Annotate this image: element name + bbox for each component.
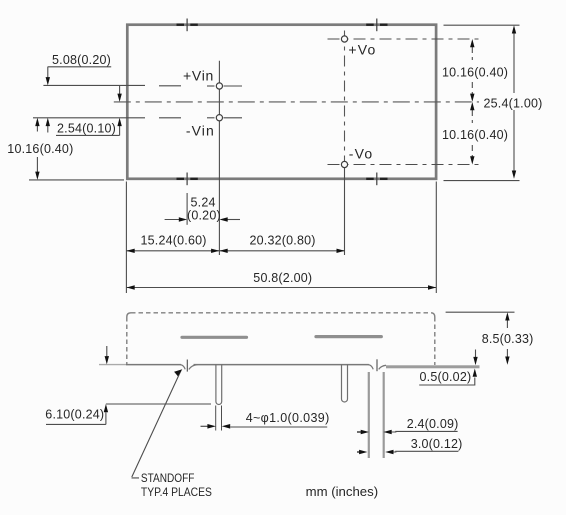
5.08 up arrow [47, 124, 49, 133]
2.4 arrows and underline [357, 431, 363, 433]
bottom edge right extension [444, 180, 520, 182]
svg-text:+Vin: +Vin [183, 67, 214, 83]
rounded corners [127, 313, 131, 317]
dimension 0.5(0.02) down arrow [475, 350, 477, 360]
10.16 down arrow [36, 157, 38, 173]
svg-text:(0.20): (0.20) [187, 209, 221, 223]
svg-text:4~φ1.0(0.039): 4~φ1.0(0.039) [246, 411, 330, 425]
dimension 6.10(0.24) down arrow [106, 346, 108, 358]
leader arrowhead [174, 369, 182, 376]
pin diameter extension lines [215, 406, 217, 431]
output column extension below [344, 165, 346, 256]
svg-text:15.24(0.60): 15.24(0.60) [141, 233, 207, 247]
pin +Vo [341, 36, 347, 42]
top edge right extension [444, 24, 520, 26]
standoff 2 tick [376, 359, 378, 371]
svg-text:5.24: 5.24 [191, 196, 216, 210]
right body edge extension down [435, 182, 437, 294]
pin -Vin [216, 115, 222, 121]
-Vin row line [33, 117, 242, 119]
10.16 up arrow [36, 124, 38, 132]
50.8 dimension line [126, 287, 436, 289]
underline [46, 423, 106, 425]
tick flanking dashes [177, 24, 185, 26]
underline with arrow tail [230, 426, 327, 428]
left body edge extension down [125, 182, 127, 294]
3.0 arrows and underline [357, 451, 361, 453]
dimension 5.24(0.20) leader line [186, 193, 188, 225]
5.24 left arrow [165, 219, 181, 221]
dimension 10.16(0.40) lower-right [471, 110, 473, 123]
6.10 up arrow [104, 404, 108, 412]
pin +Vin [216, 83, 222, 89]
5.24 right arrow [226, 219, 240, 221]
pin (input column, side view) [216, 365, 222, 405]
underline [48, 66, 112, 68]
svg-text:5.08(0.20): 5.08(0.20) [52, 53, 111, 67]
+Vo row line [328, 38, 480, 40]
standoff tick top-left [186, 19, 188, 32]
pin column line (input side) [218, 61, 220, 255]
dimension 25.4(1.00) line [513, 31, 515, 93]
+Vin row line [43, 84, 242, 87]
15.24/20.32 dimension line [126, 250, 344, 252]
svg-text:STANDOFF: STANDOFF [141, 471, 195, 485]
svg-text:8.5(0.33): 8.5(0.33) [482, 332, 534, 346]
standoff 1 bump [180, 365, 197, 370]
body bottom line [99, 364, 126, 366]
label slot right [316, 335, 381, 338]
tick flanking dashes [366, 24, 374, 26]
svg-text:10.16(0.40): 10.16(0.40) [442, 128, 508, 142]
5.08 down arrow [47, 67, 49, 79]
horizontal centerline [114, 101, 479, 103]
standoff tick bottom-left [186, 173, 188, 186]
side body dashed left edge [126, 317, 128, 364]
underline [56, 134, 120, 136]
standoff tick bottom-right [376, 173, 378, 186]
svg-text:-Vo: -Vo [349, 145, 374, 161]
svg-text:10.16(0.40): 10.16(0.40) [7, 142, 73, 156]
svg-text:25.4(1.00): 25.4(1.00) [484, 96, 543, 110]
pin (output column, side view) [342, 365, 348, 403]
svg-text:2.54(0.10): 2.54(0.10) [57, 122, 116, 136]
dimension 8.5(0.33) [506, 319, 508, 329]
-Vo row line [328, 164, 480, 166]
standoff 2 bump [368, 365, 386, 370]
0.5 up arrow [473, 369, 477, 377]
dimension 4~dia1.0 arrows [201, 425, 210, 427]
pin -Vo [341, 161, 347, 167]
svg-text:2.4(0.09): 2.4(0.09) [407, 417, 459, 431]
side body dashed right edge [434, 317, 436, 365]
side top edge right extension [446, 311, 515, 313]
2.54 down arrow [119, 85, 121, 95]
side body dashed top edge [131, 312, 431, 314]
svg-text:3.0(0.12): 3.0(0.12) [411, 437, 463, 451]
svg-text:-Vin: -Vin [186, 123, 215, 139]
pin tip level line [106, 403, 211, 405]
standoff tick top-right [376, 19, 378, 32]
standoff leader line [132, 371, 182, 478]
module body outline (top view) [127, 25, 436, 179]
svg-text:0.5(0.02): 0.5(0.02) [420, 370, 472, 384]
standoff 1 tick [186, 360, 188, 372]
wide lead left edge [368, 372, 370, 458]
dimension 10.16(0.40) upper-right [471, 47, 473, 60]
wide lead right edge [383, 372, 385, 458]
underline [419, 378, 475, 386]
tick flanking dashes [177, 178, 185, 180]
svg-text:10.16(0.40): 10.16(0.40) [442, 66, 508, 80]
svg-text:50.8(2.00): 50.8(2.00) [253, 271, 312, 285]
flange / standoff plane [386, 365, 480, 368]
svg-text:mm (inches): mm (inches) [306, 485, 379, 499]
svg-text:TYP.4 PLACES: TYP.4 PLACES [141, 485, 212, 499]
svg-text:20.32(0.80): 20.32(0.80) [250, 233, 316, 247]
pin column centerline (output side) [344, 31, 346, 165]
tick flanking dashes [366, 178, 374, 180]
svg-text:6.10(0.24): 6.10(0.24) [45, 407, 104, 421]
label slot left [182, 336, 247, 339]
2.54 up arrow [119, 124, 121, 135]
bottom edge left extension [29, 179, 124, 181]
svg-text:+Vo: +Vo [348, 41, 376, 57]
